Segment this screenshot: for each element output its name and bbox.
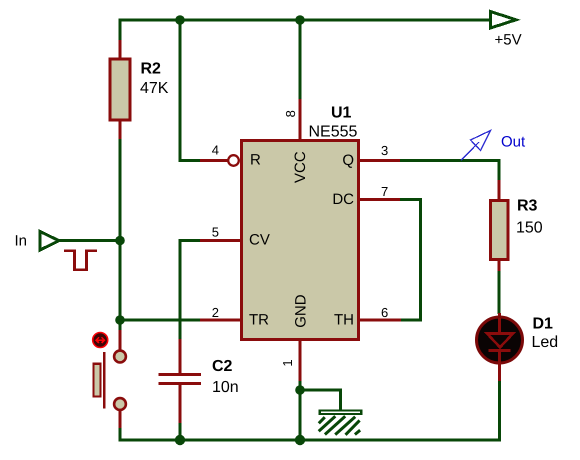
svg-text:3: 3 bbox=[381, 143, 388, 158]
wire left vertical (R2/trigger net) top segment bbox=[119, 19, 122, 42]
wire CV branch horizontal bbox=[179, 239, 201, 242]
pin 1 lead GND bbox=[299, 340, 302, 382]
svg-text:47K: 47K bbox=[140, 80, 169, 97]
node junction bottom rail center bbox=[295, 435, 305, 445]
wire R3 to LED bbox=[498, 271, 501, 314]
output probe Out bbox=[461, 131, 491, 161]
wire ground horizontal bbox=[300, 389, 341, 392]
resistor R3 bbox=[491, 180, 509, 272]
pulse waveform symbol bbox=[64, 251, 97, 270]
pin 4 inversion bubble bbox=[228, 155, 239, 166]
svg-text:R2: R2 bbox=[141, 61, 162, 78]
wire ground junction to bottom rail bbox=[299, 390, 302, 440]
svg-text:150: 150 bbox=[516, 220, 543, 237]
input flag In bbox=[40, 232, 59, 251]
LED D1 bbox=[477, 313, 523, 382]
pin 2 lead TR bbox=[200, 319, 240, 322]
node junction C2 bottom bbox=[175, 435, 185, 445]
wire VCC branch vertical bbox=[299, 19, 302, 101]
svg-text:TR: TR bbox=[249, 312, 269, 329]
svg-text:+5V: +5V bbox=[495, 32, 522, 49]
wire button bottom to rail bbox=[119, 428, 122, 442]
wire DC loop vertical bbox=[419, 198, 422, 322]
node junction In/trigger bbox=[115, 236, 125, 246]
svg-text:VCC: VCC bbox=[292, 151, 309, 183]
wire LED to bottom rail bbox=[498, 381, 501, 442]
pin 7 lead DC bbox=[359, 198, 401, 201]
wire button top lead green bbox=[119, 320, 122, 331]
wire Q output horizontal bbox=[400, 159, 501, 162]
svg-text:2: 2 bbox=[212, 305, 219, 320]
svg-text:10n: 10n bbox=[212, 379, 239, 396]
capacitor C2 bbox=[159, 339, 202, 424]
svg-text:TH: TH bbox=[334, 312, 354, 329]
svg-text:R3: R3 bbox=[517, 198, 538, 215]
svg-text:D1: D1 bbox=[533, 316, 554, 333]
wire top rail bbox=[119, 19, 492, 22]
wire Q output corner down bbox=[498, 159, 501, 181]
svg-text:Out: Out bbox=[501, 134, 526, 151]
pushbutton bbox=[94, 330, 126, 429]
wire CV branch vertical to C2 bbox=[179, 239, 182, 340]
svg-text:R: R bbox=[250, 152, 261, 169]
wire left vertical middle (R2 to trigger junctions) bbox=[119, 139, 122, 335]
wire In to junction bbox=[58, 239, 122, 242]
svg-text:DC: DC bbox=[332, 191, 354, 208]
pin 5 lead CV bbox=[200, 239, 240, 242]
button actuator indicator bbox=[93, 333, 108, 348]
wire trigger row to pin 2 bbox=[119, 319, 201, 322]
wire reset branch horizontal bbox=[179, 159, 201, 162]
svg-text:C2: C2 bbox=[212, 358, 233, 375]
svg-text:NE555: NE555 bbox=[309, 124, 358, 141]
svg-text:8: 8 bbox=[283, 110, 298, 117]
svg-text:Q: Q bbox=[342, 152, 354, 169]
resistor R2 bbox=[110, 40, 130, 140]
wire pin1 to ground junction bbox=[299, 381, 302, 390]
svg-text:4: 4 bbox=[212, 143, 219, 158]
pin 3 lead Q bbox=[359, 159, 401, 162]
wire ground vertical bbox=[339, 389, 342, 411]
svg-text:CV: CV bbox=[249, 232, 270, 249]
wire C2 to bottom rail bbox=[179, 423, 182, 440]
node junction top VCC bbox=[295, 15, 305, 25]
svg-text:5: 5 bbox=[212, 225, 219, 240]
svg-text:Led: Led bbox=[532, 334, 559, 351]
wire DC loop top bbox=[400, 198, 422, 201]
svg-text:7: 7 bbox=[381, 184, 388, 199]
wire bottom rail bbox=[119, 439, 502, 442]
wire DC loop bottom bbox=[400, 319, 422, 322]
svg-text:U1: U1 bbox=[331, 105, 352, 122]
wire reset branch vertical bbox=[179, 19, 182, 163]
pin 6 lead TH bbox=[359, 319, 401, 322]
svg-text:In: In bbox=[15, 233, 28, 250]
pin 8 lead VCC bbox=[299, 99, 302, 140]
node junction ground bbox=[295, 385, 305, 395]
ground symbol bbox=[319, 411, 362, 435]
node junction top-left bbox=[175, 15, 185, 25]
svg-text:1: 1 bbox=[280, 359, 295, 366]
IC U1 NE555 body bbox=[242, 141, 359, 340]
power flag +5V bbox=[491, 12, 517, 29]
svg-text:6: 6 bbox=[381, 305, 388, 320]
pin 4 lead R bbox=[200, 159, 228, 162]
svg-text:GND: GND bbox=[292, 294, 309, 328]
node junction trigger row bbox=[115, 315, 125, 325]
